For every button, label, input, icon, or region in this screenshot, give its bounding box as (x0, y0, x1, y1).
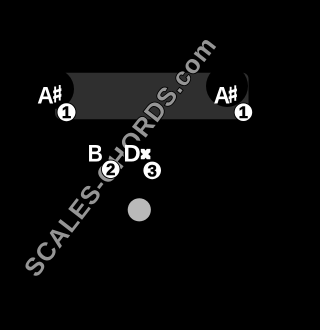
svg-text:3: 3 (148, 162, 157, 180)
svg-text:A: A (37, 82, 54, 109)
svg-text:A: A (214, 82, 231, 109)
svg-text:1: 1 (62, 104, 71, 122)
svg-text:2: 2 (106, 161, 115, 179)
svg-text:1: 1 (239, 104, 248, 122)
svg-text:B: B (88, 140, 103, 167)
svg-text:D: D (123, 140, 140, 167)
